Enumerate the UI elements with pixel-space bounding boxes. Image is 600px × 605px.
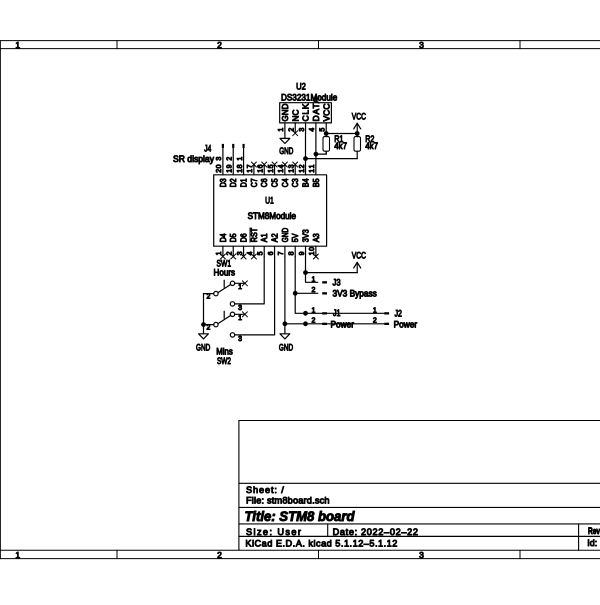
title block sheet/title divider (239, 506, 600, 508)
svg-text:Id:: Id: (587, 538, 597, 548)
U1 bottom pin 6 line (274, 246, 276, 256)
svg-text:D5: D5 (229, 233, 238, 242)
svg-text:CLK: CLK (301, 103, 311, 121)
resistor R2 (356, 134, 358, 137)
sheet frame left inner line (0, 41, 1, 559)
sheet frame inner bottom line (0, 549, 600, 551)
frame top divider 3 (519, 41, 521, 49)
no-connect x on U1 top pin (282, 162, 287, 167)
U1 top pin 18 line (243, 165, 245, 175)
title block size/kicad divider (239, 535, 600, 537)
svg-text:4k7: 4k7 (334, 141, 347, 151)
svg-text:2: 2 (311, 318, 315, 325)
U1 bottom pin 4 line (253, 246, 255, 256)
svg-text:File: stm8board.sch: File: stm8board.sch (246, 496, 330, 506)
svg-text:DATA: DATA (311, 97, 321, 121)
U1 top pin 14 line (284, 165, 286, 175)
svg-text:D3: D3 (219, 178, 228, 187)
svg-text:J2: J2 (395, 308, 403, 318)
svg-text:3V3 Bypass: 3V3 Bypass (333, 288, 378, 298)
U1 bottom pin 10 line (315, 246, 317, 256)
ground symbol at switches (203, 329, 205, 334)
svg-text:D2: D2 (229, 178, 238, 187)
power symbol VCC top (356, 123, 358, 133)
svg-text:SW2: SW2 (217, 356, 231, 366)
J4 pin 3 line (222, 148, 224, 164)
svg-text:4: 4 (309, 128, 316, 132)
svg-text:6: 6 (268, 251, 275, 255)
svg-text:2: 2 (217, 40, 222, 50)
no-connect x on U1 top pin (262, 162, 267, 167)
U1 bottom pin 1 line (222, 246, 224, 256)
connector J3 pin 2 square (322, 292, 327, 294)
connector J3 pin 1 square (322, 281, 327, 283)
svg-text:3: 3 (216, 157, 223, 161)
svg-text:Title: STM8 board: Title: STM8 board (245, 508, 355, 524)
svg-text:3: 3 (238, 305, 242, 312)
IC U2 body (280, 103, 332, 123)
svg-text:VCC: VCC (352, 250, 367, 260)
svg-text:20: 20 (216, 164, 223, 172)
svg-text:1: 1 (373, 307, 377, 314)
U1 top pin 19 line (232, 165, 234, 175)
frame bottom divider 2 (318, 550, 320, 558)
svg-text:5V: 5V (291, 233, 300, 242)
wire R2 bottom to CLK net (306, 158, 358, 160)
J4 pin 2 square (232, 144, 234, 148)
title block title/size divider (239, 523, 600, 525)
svg-text:1: 1 (216, 251, 223, 255)
svg-text:1: 1 (15, 550, 20, 560)
svg-text:19: 19 (227, 164, 234, 172)
U1 bottom pin 3 line (243, 246, 245, 256)
sheet frame outer top line (0, 40, 600, 42)
svg-text:GND: GND (281, 228, 290, 243)
sheet frame outer bottom line (0, 558, 600, 560)
svg-text:11: 11 (309, 164, 316, 172)
title block rev-id divider (578, 524, 580, 550)
svg-text:Date: 2022–02–22: Date: 2022–02–22 (333, 527, 418, 537)
junction GND-rail (283, 321, 288, 326)
wire R1 bottom to DATA net (316, 151, 326, 154)
svg-text:STM8Module: STM8Module (248, 211, 296, 221)
svg-text:A2: A2 (270, 233, 279, 242)
svg-text:DS3231Module: DS3231Module (281, 92, 337, 102)
svg-text:C6: C6 (260, 178, 269, 187)
svg-text:18: 18 (237, 164, 244, 172)
junction at R1 top (324, 131, 329, 136)
wire SW1 pin3 to A1 (245, 257, 264, 304)
no-connect x on SW1 pin 1 (242, 281, 247, 286)
U1 bottom pin 7 line (284, 246, 286, 256)
title block size-date divider (327, 524, 329, 537)
junction 3V3-VCC tap (303, 270, 308, 275)
J4 pin 3 square (222, 144, 224, 148)
svg-text:GND: GND (279, 146, 294, 156)
svg-text:10: 10 (309, 247, 316, 255)
switch SW1 body (204, 280, 245, 306)
ground symbol at U1 pin 7 (284, 328, 286, 333)
power symbol VCC lower (356, 262, 358, 272)
title block top line (239, 420, 600, 422)
svg-text:1: 1 (15, 40, 20, 50)
svg-text:D4: D4 (219, 233, 228, 242)
U2 pin 4 line (315, 123, 317, 133)
svg-text:VCC: VCC (352, 112, 367, 122)
svg-text:A1: A1 (260, 233, 269, 242)
J4 pin 1 line (243, 148, 245, 164)
svg-text:9: 9 (299, 251, 306, 255)
svg-text:12: 12 (299, 164, 306, 172)
RST overline (249, 228, 251, 242)
svg-text:U2: U2 (296, 81, 306, 91)
svg-text:Rev: Rev (588, 526, 600, 536)
svg-text:3: 3 (238, 336, 242, 343)
svg-text:Power: Power (394, 320, 418, 330)
ground symbol at U2 pin 1 (284, 133, 286, 138)
svg-text:2: 2 (217, 550, 222, 560)
junction 5V-J3.2 (293, 291, 298, 296)
wire 3V3 net (306, 257, 318, 283)
svg-text:5: 5 (258, 251, 265, 255)
svg-text:2: 2 (373, 318, 377, 325)
wire 3V3 to VCC symbol (306, 272, 358, 274)
U1 top pin 15 line (274, 165, 276, 175)
junction SW2 common (201, 322, 206, 327)
wire GND pin7 vertical (284, 257, 286, 329)
junction at R2 top (355, 131, 360, 136)
svg-text:3: 3 (419, 40, 424, 50)
no-connect x on U1 bottom pin (241, 254, 246, 259)
svg-text:A3: A3 (312, 233, 321, 242)
svg-text:J3: J3 (333, 277, 341, 287)
svg-text:1: 1 (238, 284, 242, 291)
no-connect x on U1 top pin (272, 162, 277, 167)
no-connect x on U1 bottom pin (251, 254, 256, 259)
U1 bottom pin 2 line (232, 246, 234, 256)
J4 pin 1 square (242, 144, 244, 148)
svg-text:1: 1 (311, 277, 315, 284)
U1 top pin 12 line (305, 165, 307, 175)
IC U1 body (214, 175, 327, 246)
svg-text:B4: B4 (301, 178, 310, 187)
svg-text:2: 2 (289, 128, 296, 132)
svg-text:C5: C5 (270, 178, 279, 187)
frame top divider 2 (318, 41, 320, 49)
sheet frame inner top line (0, 48, 600, 50)
U1 top pin 20 line (222, 165, 224, 175)
wire J3 pin2 stub (295, 292, 318, 294)
svg-text:J1: J1 (333, 308, 341, 318)
title block outline (238, 421, 240, 551)
svg-text:GND: GND (279, 342, 294, 352)
connector J1 pin 2 square (322, 323, 327, 325)
junction rail-J1.2 (303, 321, 308, 326)
no-connect x on U2 pin 2 (293, 131, 298, 136)
U1 top pin 17 line (253, 165, 255, 175)
svg-text:GND: GND (196, 342, 211, 352)
svg-text:C4: C4 (281, 178, 290, 187)
wire power ground rail (285, 323, 384, 325)
connector J2 pin 2 square (384, 323, 389, 325)
svg-text:C7: C7 (250, 178, 259, 187)
svg-text:1: 1 (278, 128, 285, 132)
no-connect x on SW2 pin 1 (242, 312, 247, 317)
wire DATA vertical (315, 133, 317, 164)
connector J2 pin 1 square (384, 312, 389, 314)
svg-text:KiCad E.D.A. kicad 5.1.12–5.1: KiCad E.D.A. kicad 5.1.12–5.1.12 (245, 538, 397, 548)
wire U2 pin5 to VCC node (326, 133, 357, 135)
no-connect x on U1 top pin (293, 162, 298, 167)
svg-text:Size: User: Size: User (246, 527, 301, 537)
svg-text:NC: NC (290, 110, 300, 122)
switch SW2 body (204, 311, 245, 337)
svg-text:D1: D1 (239, 178, 248, 187)
J4 pin 2 line (232, 148, 234, 164)
wire 5V net (295, 257, 384, 314)
frame bottom divider 1 (116, 550, 118, 558)
svg-text:8: 8 (289, 251, 296, 255)
svg-text:J4: J4 (204, 143, 211, 153)
U1 top pin 13 line (294, 165, 296, 175)
U2 pin 5 line (325, 123, 327, 133)
U1 bottom pin 5 line (263, 246, 265, 256)
svg-text:SR display: SR display (173, 154, 214, 164)
svg-text:D6: D6 (239, 233, 248, 242)
svg-text:2: 2 (227, 157, 234, 161)
svg-text:7: 7 (278, 251, 285, 255)
svg-text:3: 3 (237, 251, 244, 255)
junction R2-CLK (303, 156, 308, 161)
svg-text:2: 2 (207, 325, 211, 332)
junction R1-DATA (314, 152, 319, 157)
no-connect x on U1 bottom pin (220, 254, 225, 259)
svg-text:U1: U1 (265, 195, 274, 205)
svg-text:C3: C3 (291, 178, 300, 187)
resistor R1 (325, 134, 327, 137)
svg-text:2: 2 (311, 287, 315, 294)
U1 top pin 11 line (315, 165, 317, 175)
U2 pin 2 line (294, 123, 296, 133)
svg-text:RST: RST (250, 228, 259, 243)
svg-text:Hours: Hours (214, 268, 236, 278)
wire SW2 pin3 to A2 (245, 257, 275, 335)
title block comment/sheet divider (239, 482, 600, 484)
svg-text:Power: Power (331, 319, 355, 329)
wire CLK vertical (305, 133, 307, 164)
svg-text:VCC: VCC (321, 104, 331, 122)
junction J1 pin1 node (303, 311, 308, 316)
U1 bottom pin 8 line (294, 246, 296, 256)
wire SW common to ground (203, 294, 205, 329)
frame bottom divider 3 (519, 550, 521, 558)
frame top divider 1 (116, 41, 118, 49)
no-connect x on U1 bottom pin (231, 254, 236, 259)
connector J1 pin 1 square (322, 312, 327, 314)
svg-text:2: 2 (227, 251, 234, 255)
svg-text:3: 3 (419, 550, 424, 560)
svg-text:1: 1 (237, 157, 244, 161)
U1 top pin 16 line (263, 165, 265, 175)
U1 bottom pin 9 line (305, 246, 307, 256)
svg-text:B5: B5 (312, 178, 321, 187)
svg-text:2: 2 (207, 294, 211, 301)
svg-text:4k7: 4k7 (365, 141, 378, 151)
no-connect x on U1 top pin (251, 162, 256, 167)
U2 pin 3 line (305, 123, 307, 133)
no-connect x on U1 pin A3 (313, 254, 318, 259)
U2 pin 1 line (284, 123, 286, 133)
svg-text:5: 5 (320, 128, 327, 132)
svg-text:4: 4 (247, 251, 254, 255)
svg-text:GND: GND (280, 104, 290, 122)
svg-text:1: 1 (238, 315, 242, 322)
svg-text:Sheet: /: Sheet: / (246, 485, 284, 495)
svg-text:1: 1 (311, 307, 315, 314)
svg-text:3V3: 3V3 (301, 229, 310, 242)
svg-text:3: 3 (299, 128, 306, 132)
